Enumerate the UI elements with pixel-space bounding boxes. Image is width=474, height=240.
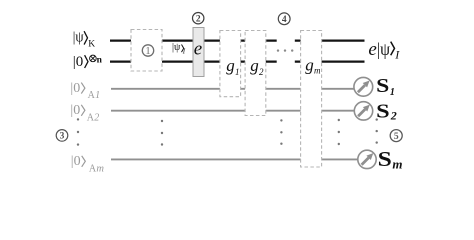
circled number 4 xyxy=(278,13,290,25)
svg-text:2: 2 xyxy=(196,14,201,24)
vdots column x=377 xyxy=(376,118,378,143)
svg-text:K: K xyxy=(88,40,95,50)
svg-text:S: S xyxy=(378,147,392,171)
wire Am (ancilla m) xyxy=(111,158,358,160)
label |0>_A1 xyxy=(70,81,100,101)
vdots column left (x=78) xyxy=(77,118,79,146)
wire W2 (second data wire, right run) xyxy=(295,60,365,62)
vdots column x=281 xyxy=(280,119,282,145)
svg-text:g: g xyxy=(305,56,314,75)
svg-text:S: S xyxy=(376,76,389,97)
svg-text:1: 1 xyxy=(145,46,150,57)
otimes xyxy=(90,55,97,62)
svg-text:|ψ: |ψ xyxy=(377,39,391,59)
dashed box 1 (state preparation) xyxy=(131,30,162,72)
svg-text:5: 5 xyxy=(394,132,399,142)
dashed gate box g1 xyxy=(220,31,241,97)
svg-text:g: g xyxy=(226,56,235,75)
meter Mm xyxy=(358,150,376,168)
circled number 3 xyxy=(56,130,68,142)
svg-text:|ψ: |ψ xyxy=(172,42,181,53)
svg-text:e: e xyxy=(194,38,202,59)
svg-text:|0: |0 xyxy=(70,81,80,96)
gate box e (error) xyxy=(193,28,204,77)
dashed gate box gm xyxy=(301,31,322,168)
meter M1 xyxy=(354,77,373,96)
label |psi>_K xyxy=(73,29,95,49)
svg-text:e: e xyxy=(368,39,376,60)
circled number 5 xyxy=(390,130,402,142)
meter M2 xyxy=(354,102,372,120)
svg-text:3: 3 xyxy=(60,132,65,142)
svg-text:|0: |0 xyxy=(71,154,81,169)
svg-text:n: n xyxy=(97,56,103,66)
svg-text:2: 2 xyxy=(259,67,264,77)
vdots column x=162 xyxy=(161,120,163,146)
vdots column x=339 xyxy=(338,119,340,145)
svg-text:|0: |0 xyxy=(70,103,80,118)
cdots between g2 and gm xyxy=(277,49,294,51)
label e|psi>_I (output state) xyxy=(368,39,400,62)
label |0>_Am xyxy=(71,154,105,175)
label |psi>_I (small, after box 1) xyxy=(172,42,186,56)
dashed gate box g2 xyxy=(245,31,266,116)
wire W2 (second data wire, left run) xyxy=(110,60,277,62)
wire A1 (ancilla 1) xyxy=(111,88,354,90)
svg-text:1: 1 xyxy=(235,67,240,77)
svg-text:|ψ: |ψ xyxy=(73,29,84,45)
label |0>_A2 xyxy=(70,103,99,123)
svg-text:m: m xyxy=(314,65,321,75)
svg-text:g: g xyxy=(250,56,259,75)
svg-text:m: m xyxy=(392,157,402,172)
circled number 2 xyxy=(193,13,204,24)
wire W1 (top data wire, right run) xyxy=(295,39,365,41)
label |0>^(x)n xyxy=(73,54,103,70)
wire A2 (ancilla 2) xyxy=(111,110,354,112)
svg-text:1: 1 xyxy=(390,87,395,98)
svg-text:|0: |0 xyxy=(73,54,84,70)
svg-text:2: 2 xyxy=(390,109,397,123)
svg-text:m: m xyxy=(96,164,104,175)
svg-text:4: 4 xyxy=(282,15,287,25)
svg-text:2: 2 xyxy=(94,112,99,123)
svg-text:1: 1 xyxy=(95,90,100,101)
circled number 1 xyxy=(142,45,153,56)
svg-text:S: S xyxy=(376,101,390,123)
wire W1 (top data wire, left run) xyxy=(110,39,277,41)
